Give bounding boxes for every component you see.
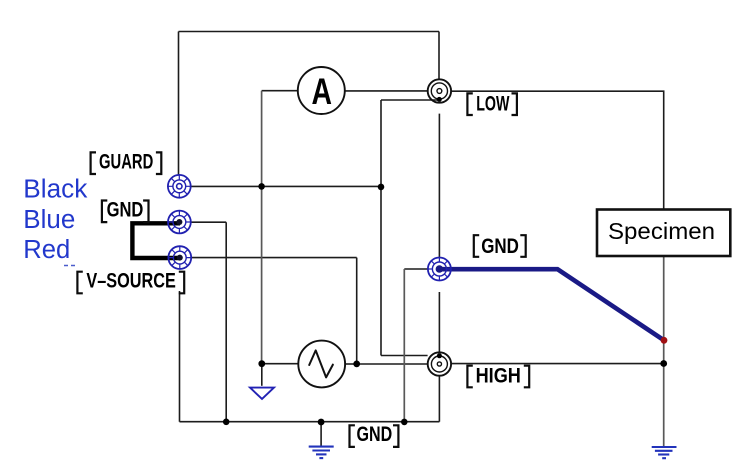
svg-text:GND: GND	[107, 197, 144, 221]
label [GND] bottom	[350, 422, 399, 447]
connector GUARD	[168, 175, 191, 198]
node dot sine left	[258, 360, 265, 367]
label [GUARD]	[91, 149, 162, 174]
chassis ground triangle (blue)	[250, 388, 274, 399]
label [LOW]	[467, 92, 517, 116]
svg-text:A: A	[312, 71, 333, 112]
wire vertical x404 to bottom (gray)	[403, 269, 405, 422]
wire vertical x381	[380, 100, 382, 356]
node dot x381 junction	[378, 184, 385, 191]
wire sine right	[345, 363, 357, 365]
wire ammeter left	[262, 90, 298, 92]
svg-text:GND: GND	[357, 422, 393, 446]
connector GND right (blue)	[428, 258, 451, 281]
connector HIGH (coax)	[428, 352, 451, 375]
wire earth stem center	[320, 422, 322, 446]
wire HIGH right	[451, 363, 664, 365]
node dot specimen red	[661, 337, 668, 344]
svg-text:HIGH: HIGH	[476, 364, 521, 388]
connector V-SOURCE	[168, 246, 191, 269]
svg-text:GND: GND	[481, 234, 519, 258]
wire GND-R to HIGH vertical	[438, 292, 440, 352]
wire vertical x357	[356, 258, 358, 364]
wire top horizontal	[179, 31, 440, 33]
svg-text:V–SOURCE: V–SOURCE	[86, 269, 175, 293]
label [V-SOURCE]	[77, 269, 184, 294]
connector LOW (coax)	[428, 79, 451, 102]
wire bottom left vertical	[179, 291, 181, 422]
wire HIGH bottom vertical	[438, 376, 440, 422]
svg-text:Specimen: Specimen	[608, 218, 715, 244]
wire GND-R left	[404, 268, 428, 270]
wire LOW to GND vertical	[438, 114, 440, 258]
node dot bottom x226	[223, 419, 230, 426]
node dot HIGH right	[660, 360, 667, 367]
svg-text:Blue: Blue	[23, 206, 75, 234]
thick black link GND to V-SOURCE	[132, 223, 180, 258]
wire to HIGH top tap	[381, 355, 428, 357]
earth ground center	[309, 447, 334, 459]
svg-text:Black: Black	[23, 176, 87, 204]
label [GND] left	[102, 197, 149, 222]
earth ground right	[652, 447, 677, 458]
svg-text:GUARD: GUARD	[99, 149, 153, 173]
wire triangle stem	[261, 364, 263, 386]
node dot sine right	[353, 361, 360, 368]
wire LOW bottom tap horizontal	[381, 99, 438, 101]
node dot bottom earth	[318, 419, 325, 426]
specimen box	[597, 210, 730, 257]
wire GND-L horizontal	[191, 221, 226, 223]
svg-text:Red: Red	[23, 236, 70, 264]
wire HIGH left	[357, 363, 428, 365]
ammeter U1	[298, 67, 345, 114]
wire vertical x226 to bottom	[225, 222, 227, 422]
wire sine left	[262, 363, 299, 365]
node dot bottom x404	[401, 419, 408, 426]
wire ammeter right to LOW	[345, 90, 428, 92]
wire GUARD horizontal	[191, 185, 381, 187]
wire specimen bottom to earth (gray)	[663, 256, 665, 447]
wire bottom horizontal	[180, 421, 440, 423]
blue thick wire GND-R to specimen node	[439, 269, 664, 340]
label [HIGH]	[467, 364, 529, 388]
sine source V1	[298, 341, 345, 388]
node dot GUARD junction	[258, 183, 265, 190]
wire vertical ammeter to sine node (gray)	[261, 91, 263, 364]
wire V-SOURCE horizontal	[192, 257, 357, 259]
wire LOW right to specimen top	[451, 91, 664, 209]
connector GND left	[168, 211, 191, 234]
label [GND] right	[474, 234, 526, 258]
blue dash marks under Red	[64, 265, 75, 267]
wire left top vertical to GUARD	[178, 32, 180, 176]
wire right top vertical to LOW	[438, 32, 440, 80]
svg-text:LOW: LOW	[476, 92, 510, 116]
